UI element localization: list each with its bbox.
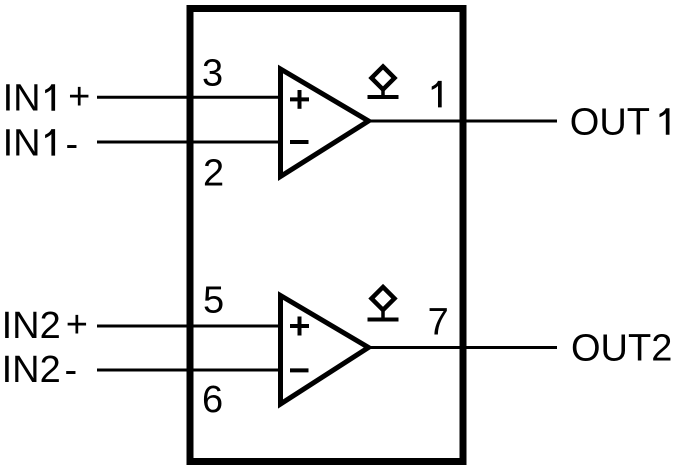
net label OUT1 [570, 102, 670, 144]
wire OUT2 [368, 346, 557, 349]
op-amp A2 output clamp symbol (diamond over bar) [368, 287, 399, 320]
op-amp A1 output clamp symbol (diamond over bar) [368, 67, 399, 98]
IC body package outline U1 [190, 9, 463, 462]
pin 1 number [432, 81, 442, 108]
op-amp A2 plus input marker [290, 317, 309, 336]
svg-text:OUT2: OUT2 [571, 328, 672, 370]
svg-text:5: 5 [203, 279, 224, 321]
wire OUT1 [368, 120, 557, 123]
wire IN2- [97, 369, 281, 372]
svg-text:+: + [66, 304, 88, 346]
svg-text:-: - [64, 350, 77, 392]
svg-text:6: 6 [202, 379, 223, 421]
net label IN2+ [2, 304, 88, 347]
op-amp A1 minus input marker [290, 140, 309, 144]
op-amp A1 triangle [281, 69, 369, 177]
wire IN1+ [97, 96, 281, 99]
net label IN1- [3, 122, 79, 165]
net label IN1+ [3, 76, 91, 120]
svg-text:7: 7 [428, 302, 449, 344]
svg-text:OUT: OUT [570, 102, 650, 144]
svg-text:IN: IN [3, 122, 41, 164]
svg-text:IN2: IN2 [2, 349, 61, 391]
wire IN2+ [97, 325, 281, 328]
svg-text:+: + [68, 76, 90, 118]
wire IN1- [97, 141, 281, 144]
op-amp A2 minus input marker [290, 368, 309, 372]
net label IN2- [2, 349, 78, 392]
op-amp A2 triangle [281, 296, 369, 405]
op-amp A1 plus input marker [290, 90, 309, 109]
svg-text:-: - [65, 124, 78, 166]
svg-text:2: 2 [203, 152, 224, 194]
svg-text:3: 3 [202, 53, 223, 95]
svg-text:IN2: IN2 [2, 305, 61, 347]
svg-text:IN: IN [3, 78, 41, 120]
